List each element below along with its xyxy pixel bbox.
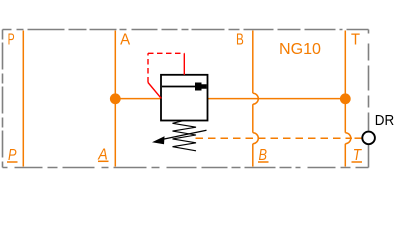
enclosure: valve plate outline, top edge (dash-dot) — [3, 29, 369, 31]
enclosure: valve plate outline, right edge (dash-dot) — [368, 30, 370, 168]
relief valve V1: adjustment arrow — [152, 130, 207, 144]
wire: port line B (middle segment) — [252, 104, 254, 133]
relief valve V1: spring — [173, 121, 197, 151]
drain line: solid stub into DR port — [355, 137, 363, 139]
wire: port line B (upper segment) — [252, 31, 254, 94]
pilot line (red dashed): top run — [148, 52, 184, 54]
crossover hop: T line over drain line — [345, 133, 351, 144]
wire: port line B (lower segment) — [252, 144, 254, 167]
junction dot at node T — [340, 93, 351, 104]
relief valve V1: body — [161, 75, 208, 121]
junction dot at node A — [110, 93, 121, 104]
crossover hop: B line over main pressure line — [253, 93, 259, 104]
pilot line (red dashed): left riser — [147, 53, 149, 82]
pilot line (red): diagonal tap from valve inlet — [148, 83, 161, 99]
enclosure: valve plate outline, left edge (dash-dot) — [2, 30, 4, 168]
svg-text:T: T — [351, 32, 361, 49]
port DR: circle on enclosure edge — [362, 132, 375, 145]
wire: port line T (lower segment) — [344, 144, 346, 167]
svg-text:P: P — [8, 32, 15, 49]
wire: port line P — [22, 31, 24, 167]
label A (bottom, italic underlined) — [97, 146, 108, 163]
wire: main pressure line from A to valve inlet — [115, 98, 161, 100]
wire: port line A — [114, 31, 116, 167]
wire: port line T (upper segment) — [344, 31, 346, 133]
label B (bottom, italic underlined) — [258, 147, 269, 164]
svg-text:DR: DR — [375, 113, 394, 129]
enclosure: valve plate outline, bottom edge (dash-dot) — [3, 167, 369, 169]
drain line (orange dashed) from valve spring side to DR — [196, 137, 353, 139]
svg-text:A: A — [120, 32, 131, 49]
relief valve V1: flow arrow — [162, 83, 207, 91]
crossover hop: B line over drain line — [253, 133, 259, 144]
pilot line (red): drop into valve top — [183, 53, 185, 75]
svg-text:B: B — [236, 32, 244, 49]
wire: main line from valve outlet to T — [208, 98, 346, 100]
label P (bottom, italic underlined) — [7, 147, 18, 164]
label T (bottom, italic underlined) — [352, 147, 363, 164]
svg-text:NG10: NG10 — [279, 41, 321, 58]
